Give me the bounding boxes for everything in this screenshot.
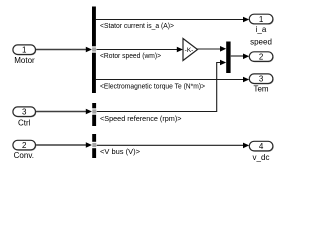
svg-text:Conv.: Conv. xyxy=(14,151,34,160)
svg-text:Ctrl: Ctrl xyxy=(18,119,31,128)
svg-text:Motor: Motor xyxy=(14,56,35,65)
svg-text:2: 2 xyxy=(259,53,264,62)
svg-text:speed: speed xyxy=(250,38,272,47)
svg-text:v_dc: v_dc xyxy=(253,153,270,162)
svg-text:2: 2 xyxy=(22,141,27,150)
svg-text:<Electromagnetic torque Te (N*: <Electromagnetic torque Te (N*m)> xyxy=(100,83,205,90)
svg-text:3: 3 xyxy=(22,108,27,117)
svg-text:3: 3 xyxy=(259,75,264,84)
svg-text:<Rotor speed (wm)>: <Rotor speed (wm)> xyxy=(100,53,161,60)
svg-text:i_a: i_a xyxy=(256,25,267,34)
svg-text:1: 1 xyxy=(22,46,27,55)
svg-text:-K-: -K- xyxy=(185,47,194,54)
svg-text:4: 4 xyxy=(259,142,264,151)
svg-text:Tem: Tem xyxy=(253,84,268,93)
svg-text:<Speed reference (rpm)>: <Speed reference (rpm)> xyxy=(100,116,182,123)
svg-text:1: 1 xyxy=(259,15,264,24)
svg-text:<Stator current is_a (A)>: <Stator current is_a (A)> xyxy=(100,23,174,30)
svg-text:<V bus (V)>: <V bus (V)> xyxy=(100,149,140,156)
